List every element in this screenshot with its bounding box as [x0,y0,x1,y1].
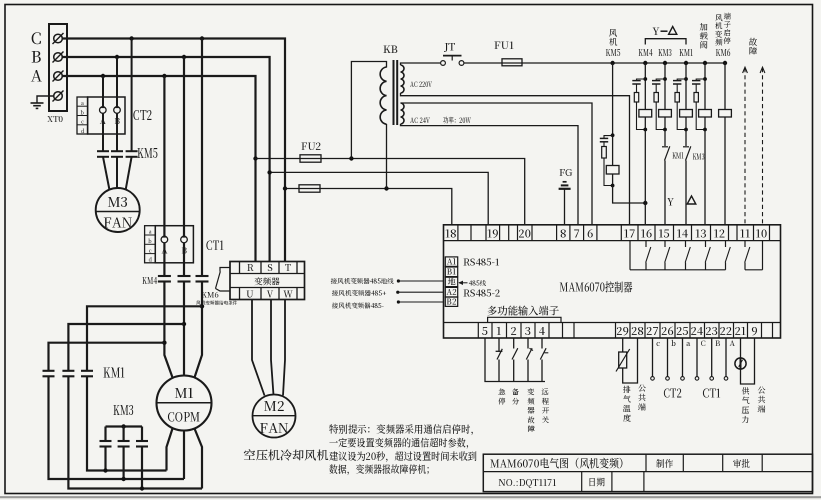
svg-text:24: 24 [691,323,704,339]
contact KM1 interlock [664,130,666,147]
input switch VFD fault (3) [527,338,529,349]
wire KM5 to M3 leads [103,157,109,189]
wire phase C bus [62,39,285,263]
svg-text:障: 障 [527,424,535,435]
wire A to CT1-A [163,76,165,236]
wire to terminal 14 [685,161,687,225]
svg-text:21: 21 [735,323,746,339]
node KM3-3 [140,486,144,490]
wire M1 bottom lead 2 [183,431,185,480]
current transformer CT2 [77,97,88,134]
node B-CT1 tap [182,55,186,59]
svg-text:3: 3 [525,323,531,339]
svg-text:JT: JT [443,40,455,55]
current transformer CT1 [145,226,156,263]
svg-text:RS485-1: RS485-1 [463,255,500,269]
wire inverter V to M2 [271,300,274,396]
wire C bypass CT1 [201,39,203,276]
title block [483,454,812,491]
svg-text:MAM6070电气图（风机变频）: MAM6070电气图（风机变频） [490,456,629,472]
svg-text:接风机变频器485地线: 接风机变频器485地线 [331,276,394,286]
svg-text:日期: 日期 [588,475,605,489]
motor M3 FAN [96,188,140,232]
svg-text:25: 25 [676,323,689,339]
svg-text:CT2: CT2 [133,104,152,124]
svg-text:停: 停 [498,396,506,407]
svg-text:KM1: KM1 [103,362,125,382]
svg-text:8: 8 [560,225,566,241]
svg-text:13: 13 [695,225,706,241]
svg-text:FAN: FAN [103,212,132,232]
svg-text:M1: M1 [174,382,194,402]
wire fault line to terminal 11 (dashed) [744,68,746,225]
svg-text:7: 7 [574,225,580,241]
controller top terminal separators [457,225,459,241]
svg-text:12: 12 [714,225,725,241]
contactor KM1 main contacts [43,370,55,372]
ground symbol at XT0 [37,96,54,103]
svg-text:26: 26 [661,323,674,339]
wire C to KM5 pole3 [131,39,133,151]
node KM3-2 [121,477,125,481]
svg-text:度: 度 [623,413,631,424]
node C-CT1 tap [200,36,204,40]
svg-text:Y: Y [667,194,674,209]
svg-text:KM3: KM3 [113,399,134,419]
svg-text:KM1: KM1 [672,150,685,162]
wire M1 bottom lead 1 [167,429,173,471]
node A-FU2 [253,156,257,160]
label delta branch [687,196,696,204]
node transformer primary bottom tap [384,186,388,190]
svg-text:力: 力 [742,415,750,426]
svg-text:S: S [267,261,272,274]
svg-text:AC 220V: AC 220V [410,79,432,90]
svg-text:27: 27 [646,323,658,339]
motor M2 FAN [253,395,296,438]
wire B to terminal 19 [270,172,489,224]
svg-text:制作: 制作 [656,456,673,470]
svg-text:KM3: KM3 [658,45,672,59]
fuse FU2-1 line to terminal 20 [256,159,525,225]
input common wire terminal 5 [485,338,545,382]
svg-text:10: 10 [756,225,767,241]
svg-text:29: 29 [616,323,629,339]
wire inverter U to M2 [252,300,265,396]
svg-text:KB: KB [383,42,398,57]
svg-text:M2: M2 [264,395,285,415]
wire rail to relay coils [522,62,725,64]
svg-text:c: c [149,247,152,254]
contactor KM5 main contacts [97,150,109,152]
wire KM4 pole2 to M1 [183,282,185,377]
node KM1 branch C [200,304,204,308]
wire A to CT2-A [102,76,104,107]
wire to terminal 15 [664,161,666,225]
wire KM5 coil to terminal 16 [613,186,646,204]
node KM1 branch B [182,322,186,326]
wire KM1 branch top 2 [68,324,184,371]
wire KM4 pole3 to M1 [195,282,203,378]
wire CT1-B down [183,243,185,275]
svg-text:15: 15 [658,225,669,241]
svg-text:16: 16 [641,225,652,241]
svg-text:RS485-2: RS485-2 [463,286,501,300]
wire 220V supply rail [401,63,441,65]
pressure transducer supply pressure (21-9) [740,338,742,358]
svg-text:14: 14 [677,225,689,241]
node KM3-1 [103,468,107,472]
svg-text:端: 端 [758,404,766,415]
svg-text:CT1: CT1 [206,235,224,254]
svg-text:U: U [246,288,253,301]
svg-text:C: C [701,338,706,349]
svg-text:KM5: KM5 [606,45,621,59]
contactor KM3 star bridge [106,425,143,427]
svg-text:KM1: KM1 [679,45,693,59]
controller internal relay contacts [629,241,631,270]
svg-text:风机变频器给电条件: 风机变频器给电条件 [196,300,238,307]
wire fault line to terminal 10 (dashed) [762,68,764,225]
node A-CT1 tap [162,74,166,78]
svg-text:FU1: FU1 [494,38,514,53]
svg-text:COPM: COPM [168,408,201,426]
svg-text:MAM6070控制器: MAM6070控制器 [560,279,633,296]
svg-text:接风机变频器485+: 接风机变频器485+ [332,288,387,298]
svg-text:FAN: FAN [259,417,288,437]
svg-text:b: b [147,238,151,245]
svg-text:485线: 485线 [469,279,487,288]
svg-text:功率：20W: 功率：20W [443,115,471,126]
svg-text:R: R [247,261,254,274]
svg-text:KM6: KM6 [716,45,731,59]
svg-text:阀: 阀 [699,39,708,51]
label 485 line with arrow [459,282,468,284]
svg-text:W: W [283,288,293,301]
svg-text:2: 2 [511,323,517,339]
svg-text:多功能输入端子: 多功能输入端子 [487,304,559,319]
svg-text:KM3: KM3 [693,151,705,163]
svg-text:AC 24V: AC 24V [410,115,430,126]
wire phase A bus [62,76,255,262]
relay coil KM5 with RC snubber [610,61,614,65]
wire CT2-B down [116,113,118,151]
RS485 side terminals [445,257,457,267]
wire primary top lead [351,62,386,159]
svg-text:20: 20 [518,225,531,241]
controller bottom terminal separators [477,323,479,339]
wire loading valve coil to terminal 13 [704,130,706,225]
svg-text:5: 5 [482,323,488,339]
svg-text:c: c [656,338,660,349]
input switch spare (2) [513,338,515,349]
relay coil KM1 with RC snubber [684,61,688,65]
transformer secondary 24V winding [401,103,405,124]
svg-text:9: 9 [751,323,757,339]
svg-text:A: A [730,338,736,349]
wire KM4 pole1 to M1 [164,282,172,378]
transformer core [393,60,395,125]
svg-text:FU2: FU2 [301,138,321,153]
svg-text:CT1: CT1 [703,385,721,402]
wire KM1 pole2 down [68,376,202,488]
contact KM6 inverter enable [220,268,230,272]
wire CT1-A down [163,243,165,275]
svg-text:22: 22 [720,323,733,339]
svg-text:6: 6 [587,225,593,241]
contactor KM4 main contacts [158,275,171,277]
svg-text:FG: FG [559,165,573,179]
svg-text:端: 端 [638,402,646,413]
svg-text:障: 障 [749,45,758,57]
node A-CT2 tap [101,74,105,78]
svg-text:M3: M3 [107,191,128,211]
fuse FU2-2 line to terminal 18 [285,189,452,225]
svg-text:1: 1 [496,323,501,339]
svg-text:空压机冷却风机: 空压机冷却风机 [244,447,329,464]
svg-text:接风机变频器485-: 接风机变频器485- [332,300,385,310]
svg-text:17: 17 [624,225,635,241]
wire KM1 pole1 down [49,376,185,479]
relay coil KM6 [723,61,727,65]
svg-text:KM5: KM5 [137,142,158,162]
svg-text:A: A [30,65,42,87]
svg-text:KM4: KM4 [142,273,158,287]
node transformer primary top tap [349,156,353,160]
svg-text:28: 28 [631,323,644,339]
thermistor exhaust temperature (29-28) [622,338,624,352]
wire inverter W to M2 [283,300,285,396]
svg-text:关: 关 [542,414,550,425]
motor M1 COPM [157,376,212,431]
wire CT2-A down [102,113,104,151]
wire phase B bus [62,57,269,262]
svg-text:KM6: KM6 [201,290,218,301]
wire KM1 pole3 down [87,376,167,470]
wire KM4 coil to terminal 16 [644,130,646,225]
relay coil KM3 with RC snubber [663,61,667,65]
svg-text:23: 23 [705,323,718,339]
terminal block XT0 [49,24,67,111]
svg-text:变频器: 变频器 [254,276,280,288]
node B-CT2 tap [115,55,119,59]
wire primary bottom lead [386,124,388,189]
node C-CT2 tap [129,36,133,40]
wire 220V return to terminal 17 [401,93,630,225]
svg-text:a: a [686,338,690,349]
wire KM1 branch top 1 [49,343,165,371]
wire 24V bottom to terminal 7 [401,124,579,225]
svg-text:c: c [81,119,84,126]
svg-text:分: 分 [512,396,520,407]
svg-text:B: B [715,338,720,349]
svg-text:审批: 审批 [733,456,750,470]
inverter (VFD) box [230,262,305,300]
input switch emergency stop (1) [498,338,500,349]
svg-text:数据，变频器报故障停机；: 数据，变频器报故障停机； [329,461,435,476]
svg-text:XT0: XT0 [47,114,63,125]
svg-text:CT2: CT2 [664,385,682,402]
svg-text:b: b [80,109,84,116]
wire M1 bottom lead 3 [195,429,203,489]
svg-text:B2: B2 [447,296,457,307]
svg-text:b: b [671,338,676,349]
relay coil loading valve with RC snubber [703,61,707,65]
contact KM3 interlock [685,130,687,147]
svg-text:11: 11 [740,225,750,241]
wire 24V top to terminal 6 [401,103,593,225]
svg-text:V: V [267,288,274,301]
svg-text:19: 19 [487,225,498,241]
svg-text:NO.:DQT1171: NO.:DQT1171 [499,476,558,489]
svg-text:4: 4 [539,323,546,339]
transformer secondary 220V winding [401,65,405,93]
wire B to CT1-B [183,57,185,236]
relay coil KM4 with RC snubber [643,61,647,65]
controller MAM6070 box [444,225,781,338]
wire KM1 branch top 3 [87,306,202,370]
svg-text:18: 18 [445,225,456,241]
svg-text:T: T [285,261,292,274]
wire B to CT2-B [116,57,118,107]
node KM1 branch A [162,341,166,345]
svg-text:KM4: KM4 [638,45,653,59]
input switch remote switch (4) [541,338,543,349]
svg-text:Y: Y [652,24,659,39]
